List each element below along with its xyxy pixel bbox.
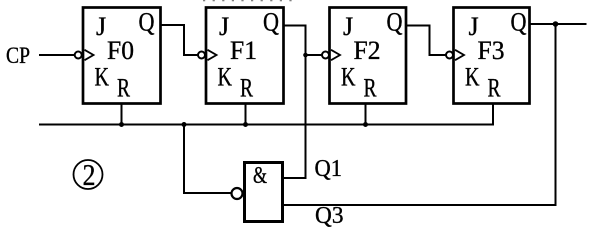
svg-text:R: R <box>117 74 130 103</box>
flip-flop F0 box <box>83 8 161 104</box>
svg-text:Q3: Q3 <box>315 203 344 229</box>
wire Q1 output down to AND gate input <box>283 26 306 179</box>
svg-text:F1: F1 <box>230 36 257 65</box>
flip-flop F3 box <box>454 8 530 104</box>
svg-text:F2: F2 <box>354 36 381 65</box>
wire F2 R pin <box>365 104 367 125</box>
svg-text:K: K <box>465 63 480 92</box>
wire CP to F0 clock <box>39 54 75 56</box>
wire Q2 output to F3 clock <box>406 26 446 56</box>
svg-text:Q: Q <box>263 8 279 37</box>
junction reset line at F0 R pin <box>119 122 124 127</box>
flip-flop F0 clock edge triangle <box>85 50 94 60</box>
svg-text:K: K <box>95 63 110 92</box>
flip-flop F2 clock inversion bubble <box>322 52 329 59</box>
flip-flop F1 box <box>206 8 284 104</box>
junction reset line at F1 R pin <box>243 122 248 127</box>
svg-text:J: J <box>343 12 353 41</box>
wire F1 R pin <box>245 104 247 125</box>
junction on Q1 line at F2 clock branch <box>303 53 308 58</box>
svg-text:F3: F3 <box>478 36 505 65</box>
flip-flop F1 clock inversion bubble <box>198 52 205 59</box>
cropped text remnant dots at top edge <box>203 0 293 2</box>
svg-text:K: K <box>341 63 356 92</box>
wire Q3 down and left to AND gate input <box>283 24 556 205</box>
wire Q1 branch to F2 clock <box>306 54 322 56</box>
circled figure number 2 <box>74 160 103 189</box>
svg-text:Q: Q <box>387 8 403 37</box>
svg-text:CP: CP <box>6 43 30 68</box>
junction reset line at AND output branch <box>182 122 187 127</box>
junction reset line at F2 R pin <box>363 122 368 127</box>
svg-text:Q: Q <box>139 8 155 37</box>
svg-text:F0: F0 <box>107 36 134 65</box>
wire Q0 output to F1 clock <box>161 25 198 55</box>
flip-flop F3 clock edge triangle <box>455 50 464 60</box>
svg-text:R: R <box>364 74 377 103</box>
AND gate U1 output inversion bubble <box>232 188 243 199</box>
reset line (common R net) <box>39 104 493 125</box>
svg-text:Q1: Q1 <box>315 156 343 182</box>
junction on Q3 output line <box>553 21 559 27</box>
flip-flop F3 clock inversion bubble <box>446 52 453 59</box>
svg-text:&: & <box>253 163 267 189</box>
svg-text:R: R <box>488 74 501 103</box>
AND gate U1 box <box>245 163 283 222</box>
flip-flop F2 clock edge triangle <box>331 50 340 60</box>
svg-text:K: K <box>218 63 233 92</box>
svg-text:Q: Q <box>511 8 527 37</box>
wire AND gate output up to reset line <box>184 125 231 194</box>
flip-flop F2 box <box>330 8 407 104</box>
svg-text:J: J <box>96 12 106 41</box>
svg-text:R: R <box>240 74 253 103</box>
flip-flop F1 clock edge triangle <box>208 50 217 60</box>
flip-flop F0 clock inversion bubble <box>75 52 82 59</box>
wire F0 R pin <box>121 104 123 125</box>
svg-text:2: 2 <box>83 157 96 192</box>
wire Q3 output to right edge <box>530 23 587 25</box>
svg-text:J: J <box>219 12 229 41</box>
